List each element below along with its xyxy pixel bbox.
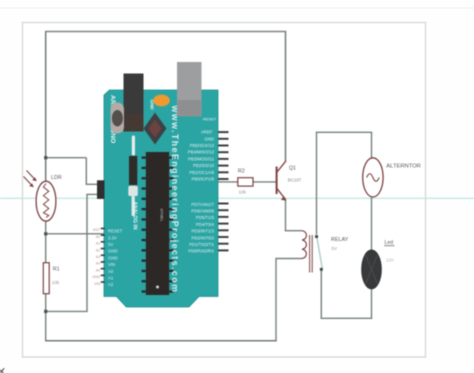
svg-text:5V: 5V [332, 246, 337, 251]
left analog pin stubs [101, 228, 105, 283]
svg-text:RST: RST [93, 228, 101, 232]
svg-text:PB4/MISO/12: PB4/MISO/12 [188, 150, 215, 155]
ATmega328 IC U1 [146, 152, 169, 295]
svg-text:RESET: RESET [108, 229, 123, 234]
relay core [309, 235, 311, 273]
svg-text:5V: 5V [108, 242, 113, 247]
svg-text:GND: GND [204, 136, 214, 141]
transistor Q1 [276, 161, 302, 201]
svg-text:VIN: VIN [94, 282, 100, 286]
svg-text:R2: R2 [238, 168, 245, 174]
power LED [153, 95, 170, 107]
svg-text:PD5/T1/5: PD5/T1/5 [196, 215, 215, 220]
svg-text:www.TheEngineeringProjects.com: www.TheEngineeringProjects.com [170, 105, 180, 294]
resistor R1 [43, 263, 60, 294]
wire: into board power pin 1 [86, 183, 101, 185]
svg-text:A2: A2 [96, 248, 100, 252]
svg-text:3.3V: 3.3V [108, 235, 117, 240]
svg-text:AREF: AREF [201, 130, 213, 135]
relay switch contact [317, 238, 322, 269]
regulator black body [129, 156, 137, 185]
svg-text:LDR: LDR [51, 175, 62, 181]
left pin header block [97, 180, 105, 199]
svg-text:RESET: RESET [203, 117, 217, 122]
switch terminal bottom [320, 268, 323, 271]
capacitor white lead [132, 196, 135, 216]
right digital pin labels [188, 136, 215, 253]
left external red pin names [92, 228, 101, 286]
svg-text:Led: Led [385, 240, 394, 246]
wire: lamp bottom lead [371, 288, 373, 319]
wire: LDR bottom to R1 top [45, 221, 47, 264]
svg-text:Q1: Q1 [289, 166, 296, 172]
resistor R2 [238, 168, 253, 194]
right pin stubs [218, 131, 229, 251]
grid guide line [0, 197, 474, 199]
svg-text:A5: A5 [96, 268, 100, 272]
svg-text:GND: GND [108, 255, 118, 260]
wire: alternator to lamp lead [371, 197, 373, 252]
relay RL1 [302, 231, 349, 273]
wire: ground return vertical [86, 194, 88, 312]
lamp Led [362, 240, 395, 289]
wire: relay coil return vertical [275, 259, 277, 342]
wire: right rail down to Q1 collector [285, 32, 287, 162]
capacitor white stick [132, 136, 135, 156]
wire: R1 bottom node horizontal [46, 310, 88, 312]
svg-text:GND: GND [108, 249, 118, 254]
svg-text:PD7/AIN1/7: PD7/AIN1/7 [191, 202, 214, 207]
USB connector [177, 62, 202, 117]
svg-text:ALTERNTOR: ALTERNTOR [386, 163, 421, 169]
svg-text:VIN: VIN [108, 262, 115, 267]
svg-text:RELAY: RELAY [331, 237, 349, 243]
Arduino Uno board [92, 62, 228, 307]
svg-text:A4: A4 [96, 262, 100, 266]
wire: tap corner vertical to 5V pin [85, 158, 87, 185]
svg-text:PD1/TXD/TX: PD1/TXD/TX [189, 242, 214, 247]
svg-text:PB2/SS/10: PB2/SS/10 [193, 163, 215, 168]
svg-text:ANALOG IN: ANALOG IN [132, 202, 138, 230]
top faint rule [0, 7, 474, 9]
switch terminal top [315, 235, 318, 238]
left power/analog silk labels [108, 229, 123, 288]
node C: R1 bottom junction [44, 310, 47, 313]
svg-text:A0: A0 [96, 235, 100, 239]
capacitor white cap [128, 186, 138, 196]
wire: relay switch pole vertical [316, 132, 318, 235]
svg-text:PB0/ICP1/8: PB0/ICP1/8 [192, 177, 215, 182]
wire: coil bottom horizontal [275, 258, 302, 260]
wire: Q1 emitter down to relay coil [285, 200, 287, 231]
wire: into board power pin 2 [86, 193, 101, 195]
logo diamond [144, 113, 167, 145]
relay coil [302, 231, 306, 259]
svg-text:12V: 12V [386, 258, 394, 263]
svg-text:A2: A2 [108, 282, 114, 287]
svg-text:GND: GND [92, 275, 100, 279]
svg-text:10k: 10k [52, 280, 60, 285]
wire: coil top horizontal [285, 230, 302, 232]
wire: right loop top rail [316, 131, 372, 133]
alternator G1 [363, 158, 421, 197]
crystal can [111, 103, 125, 134]
svg-text:A3: A3 [96, 255, 100, 259]
LDR LDR1 [24, 171, 62, 222]
wire: top rail [45, 31, 286, 33]
power jack [124, 74, 144, 132]
svg-text:PB1/OC1A/9: PB1/OC1A/9 [189, 170, 214, 175]
wire: R2 to Q1 base [253, 181, 276, 183]
svg-text:10k: 10k [239, 189, 247, 194]
wire: left rail top vertical [45, 32, 47, 183]
wire: bottom rail [45, 340, 277, 342]
wire: switch contact down lead [320, 270, 322, 319]
svg-text:PB3/MOSI/11: PB3/MOSI/11 [188, 156, 215, 161]
node B: LDR/R1 divider junction [44, 232, 47, 235]
svg-text:PD3/INT1/3: PD3/INT1/3 [192, 229, 215, 234]
wire: R1 bottom to bottom rail [45, 294, 47, 342]
corner cursor mark [0, 368, 4, 373]
svg-text:PD6/AIN0/6: PD6/AIN0/6 [191, 209, 214, 214]
svg-text:A1: A1 [108, 276, 114, 281]
wire: right loop bottom rail [321, 317, 373, 319]
wire: LDR-R1 node to A0 [46, 233, 105, 235]
wire: LDR top tap horizontal [46, 157, 87, 159]
svg-text:PD0/RXD/RX: PD0/RXD/RX [188, 249, 214, 254]
page border frame [23, 23, 426, 358]
wire: arduino pin to R2 [216, 181, 239, 183]
svg-text:R1: R1 [53, 267, 60, 273]
wire: alternator top lead [371, 132, 373, 158]
svg-text:ATMEL: ATMEL [160, 209, 165, 223]
svg-text:A1: A1 [96, 242, 100, 246]
svg-text:PB5/SCK/13: PB5/SCK/13 [190, 143, 215, 148]
board outline [104, 90, 218, 307]
svg-text:PD2/INT0/2: PD2/INT0/2 [192, 235, 215, 240]
node A: LDR top junction [44, 156, 47, 159]
svg-text:PD4/T0/4: PD4/T0/4 [196, 222, 215, 227]
svg-text:BC107: BC107 [288, 177, 302, 182]
svg-text:A0: A0 [108, 269, 114, 274]
